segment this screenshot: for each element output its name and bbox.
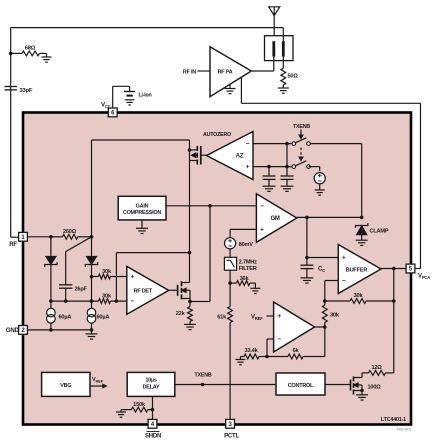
svg-text:12Ω: 12Ω <box>371 365 382 371</box>
svg-text:+: + <box>260 227 264 234</box>
svg-text:VPCA: VPCA <box>418 274 430 280</box>
svg-text:33pF: 33pF <box>20 88 33 94</box>
svg-text:61k: 61k <box>217 315 227 321</box>
svg-text:BUFFER: BUFFER <box>346 267 368 273</box>
svg-text:4401 TA01: 4401 TA01 <box>397 428 412 432</box>
svg-text:30k: 30k <box>102 294 112 300</box>
svg-text:AZ: AZ <box>236 154 244 160</box>
svg-text:33.4k: 33.4k <box>245 348 259 354</box>
svg-text:60µA: 60µA <box>97 315 110 321</box>
svg-text:SHDN: SHDN <box>145 434 161 440</box>
svg-text:−: − <box>277 336 281 343</box>
svg-text:2.7MHz: 2.7MHz <box>239 260 257 266</box>
svg-text:LTC4401-1: LTC4401-1 <box>381 417 406 423</box>
svg-text:RF IN: RF IN <box>183 69 196 75</box>
svg-text:TXENB: TXENB <box>293 124 310 130</box>
svg-text:80mV: 80mV <box>239 242 254 248</box>
svg-text:30k: 30k <box>330 313 340 319</box>
svg-text:PCTL: PCTL <box>224 434 239 440</box>
svg-text:VREF: VREF <box>251 315 263 321</box>
svg-text:−: − <box>342 278 346 285</box>
svg-text:+: + <box>342 255 346 262</box>
svg-text:60µA: 60µA <box>59 315 72 321</box>
svg-text:RF DET: RF DET <box>134 288 153 294</box>
svg-text:−: − <box>246 141 250 148</box>
svg-text:VBG: VBG <box>60 383 71 389</box>
svg-text:50Ω: 50Ω <box>288 74 299 80</box>
svg-text:+: + <box>277 313 281 320</box>
svg-text:30k: 30k <box>354 293 364 299</box>
svg-text:DELAY: DELAY <box>143 385 160 391</box>
svg-text:COMPRESSION: COMPRESSION <box>123 210 162 216</box>
svg-text:CONTROL: CONTROL <box>288 383 314 389</box>
svg-text:RF PA: RF PA <box>218 69 233 75</box>
svg-text:36k: 36k <box>240 276 250 282</box>
svg-text:GND: GND <box>6 328 20 334</box>
svg-text:22k: 22k <box>176 311 186 317</box>
svg-text:Li-Ion: Li-Ion <box>139 92 152 98</box>
svg-text:100Ω: 100Ω <box>368 385 382 391</box>
svg-text:+: + <box>246 164 250 171</box>
svg-text:−: − <box>131 298 135 305</box>
svg-text:150k: 150k <box>133 402 146 408</box>
svg-text:VREF: VREF <box>92 377 104 383</box>
svg-text:GM: GM <box>270 216 279 222</box>
svg-text:RF: RF <box>9 242 17 248</box>
svg-text:CC: CC <box>318 267 325 273</box>
svg-text:TXENB: TXENB <box>195 373 212 379</box>
svg-text:−: − <box>260 203 264 210</box>
svg-text:10µs: 10µs <box>145 378 157 384</box>
svg-text:FILTER: FILTER <box>239 266 257 272</box>
svg-text:GAIN: GAIN <box>136 204 149 210</box>
svg-text:260Ω: 260Ω <box>63 229 77 235</box>
svg-text:+: + <box>131 274 135 281</box>
svg-text:CLAMP: CLAMP <box>370 229 389 235</box>
svg-text:68Ω: 68Ω <box>25 46 36 52</box>
svg-text:26pF: 26pF <box>75 287 88 293</box>
svg-text:30k: 30k <box>102 269 112 275</box>
svg-text:AUTOZERO: AUTOZERO <box>203 132 231 138</box>
